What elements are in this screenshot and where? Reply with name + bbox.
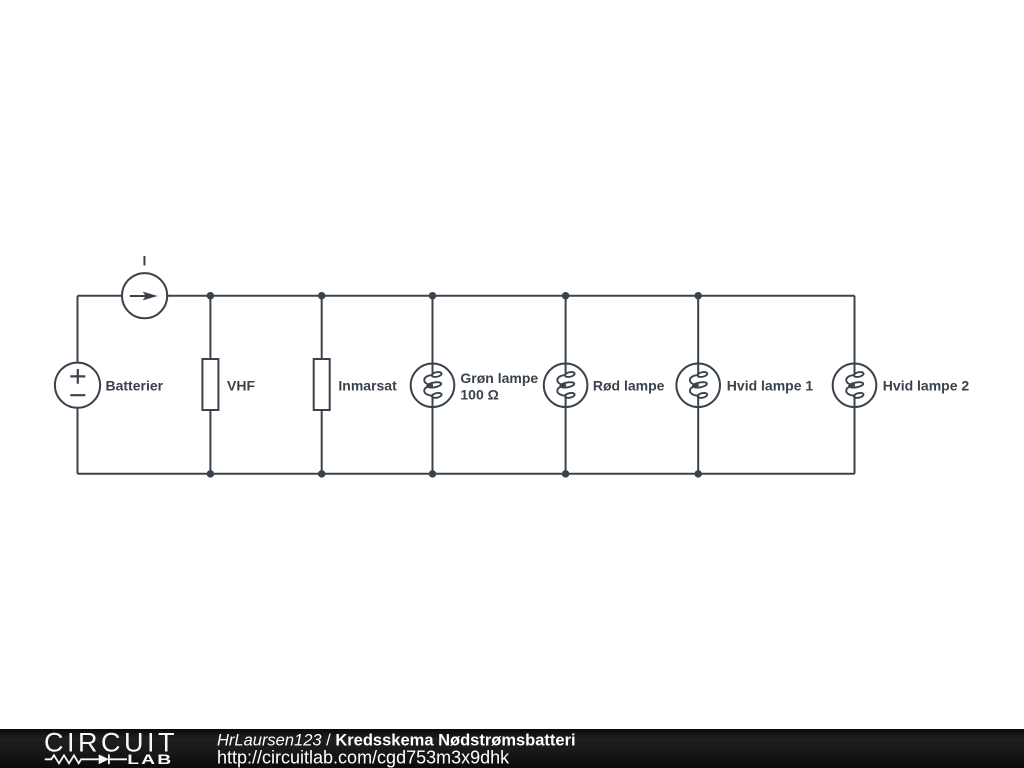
svg-text:http://circuitlab.com/cgd753m3: http://circuitlab.com/cgd753m3x9dhk [217,748,510,768]
junction node top VHF [207,292,215,300]
junction node bottom Hvid1 [694,470,702,478]
junction node top Hvid1 [694,292,702,300]
wire bottom bus [78,473,855,475]
wire left branch lower [77,408,79,474]
svg-text:I: I [143,253,147,269]
junction node top Gron [429,292,437,300]
resistor VHF [202,296,218,474]
svg-text:LAB: LAB [127,752,173,768]
svg-text:Hvid lampe 1: Hvid lampe 1 [727,377,814,393]
junction node bottom Rod [562,470,570,478]
voltage source Batterier [55,363,100,408]
junction node bottom Gron [429,470,437,478]
svg-text:Inmarsat: Inmarsat [338,377,397,393]
junction node bottom VHF [207,470,215,478]
footer bar [0,729,1024,768]
wire top bus right segment [167,295,854,297]
resistor Inmarsat [314,296,330,474]
lamp Hvid lampe 1 [676,296,720,474]
lamp Rod lampe [544,296,588,474]
junction node top Rod [562,292,570,300]
lamp Hvid lampe 2 [833,296,877,474]
wire top bus left segment [78,295,123,297]
lamp Gron lampe 100 Ohm [411,296,455,474]
junction node top Inmarsat [318,292,326,300]
svg-text:VHF: VHF [227,377,255,393]
wire left branch upper [77,296,79,363]
svg-text:Grøn lampe: Grøn lampe [460,370,538,386]
logo resistor-diode symbol [45,754,127,764]
svg-text:Rød lampe: Rød lampe [593,377,665,393]
junction node bottom Inmarsat [318,470,326,478]
svg-text:Batterier: Batterier [106,377,164,393]
ammeter I [122,273,167,318]
svg-text:100 Ω: 100 Ω [460,387,498,403]
svg-text:Hvid lampe 2: Hvid lampe 2 [883,377,970,393]
